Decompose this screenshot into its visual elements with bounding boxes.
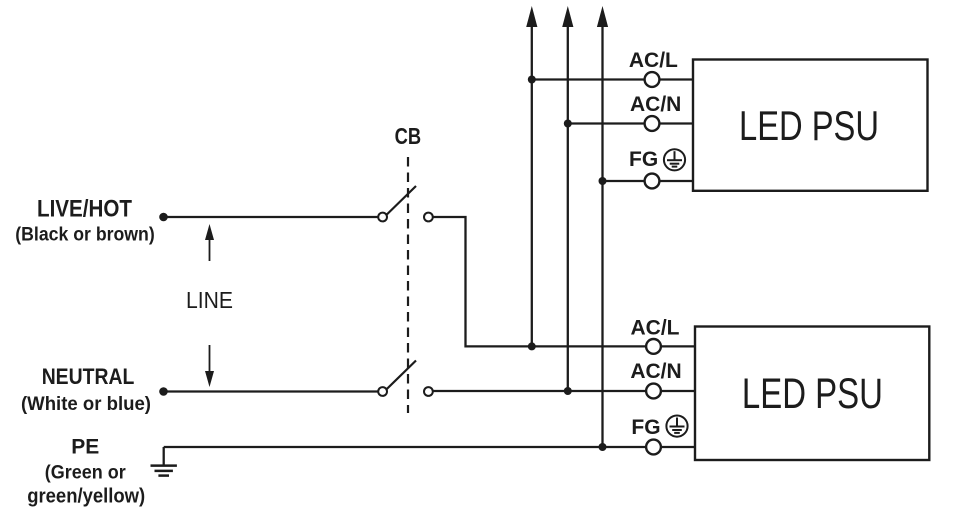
terminal FG top	[645, 174, 660, 189]
svg-text:AC/L: AC/L	[631, 317, 680, 340]
svg-text:NEUTRAL: NEUTRAL	[42, 364, 135, 389]
switch CB pole 2 (NEUTRAL)	[378, 361, 433, 396]
terminal AC/L top	[645, 72, 660, 87]
wire top AC/L to PSU	[659, 78, 693, 80]
arrow down (LINE to NEUTRAL)	[205, 345, 214, 387]
wire lower FG to PSU	[661, 446, 695, 448]
wire top AC/N to PSU	[659, 122, 693, 124]
terminal AC/N top	[645, 116, 660, 131]
arrow head output 1	[526, 6, 537, 27]
svg-text:LED PSU: LED PSU	[739, 102, 879, 149]
wire lower AC/N to PSU	[661, 390, 695, 392]
wire PE ground stub	[163, 447, 165, 466]
wire top FG	[603, 180, 645, 182]
node junction v3 PE	[599, 443, 607, 451]
wire output earth vertical	[601, 25, 603, 447]
svg-text:LED PSU: LED PSU	[742, 371, 883, 418]
svg-text:AC/L: AC/L	[629, 49, 678, 72]
circuit breaker dashed link	[407, 157, 409, 413]
node NEUTRAL input dot	[159, 387, 168, 396]
wire top AC/L	[532, 78, 645, 80]
node junction v1 lower AC/L	[528, 342, 536, 350]
protective earth symbol lower	[666, 416, 687, 437]
wire PE horizontal	[164, 446, 646, 448]
protective earth symbol top	[664, 149, 685, 170]
svg-text:green/yellow): green/yellow)	[27, 486, 145, 508]
wire NEUTRAL from breaker to lower AC/N	[433, 390, 646, 392]
arrow head output 3	[597, 6, 608, 27]
node junction v3 top FG	[599, 177, 607, 185]
svg-text:(Green or: (Green or	[45, 462, 126, 484]
wire LIVE from breaker down to lower AC/L	[433, 217, 646, 346]
node junction v1 top AC/L	[528, 76, 536, 84]
wire NEUTRAL horizontal	[164, 390, 379, 392]
switch CB pole 1 (LIVE)	[378, 186, 433, 221]
terminal AC/N lower	[646, 384, 661, 399]
svg-text:PE: PE	[71, 436, 99, 459]
terminal FG lower	[646, 440, 661, 455]
wire LIVE horizontal	[164, 216, 379, 218]
box LED PSU top	[693, 60, 928, 191]
box LED PSU lower	[695, 327, 929, 461]
svg-text:AC/N: AC/N	[630, 93, 681, 116]
svg-text:FG: FG	[631, 416, 660, 439]
wire lower AC/L to PSU	[661, 345, 695, 347]
svg-text:CB: CB	[395, 123, 422, 149]
ground symbol PE	[151, 466, 177, 476]
svg-text:AC/N: AC/N	[630, 360, 681, 383]
wire output phase 2 vertical	[567, 25, 569, 391]
node junction v2 top AC/N	[564, 120, 572, 128]
node LIVE input dot	[159, 213, 168, 222]
svg-text:(Black or brown): (Black or brown)	[15, 224, 155, 246]
svg-text:LINE: LINE	[186, 287, 233, 313]
terminal AC/L lower	[646, 339, 661, 354]
node junction v2 neutral	[564, 387, 572, 395]
arrow head output 2	[562, 6, 573, 27]
svg-text:FG: FG	[629, 148, 658, 171]
wire output phase 1 vertical	[531, 25, 533, 346]
arrow up (LINE to LIVE)	[205, 224, 214, 261]
svg-text:(White or blue): (White or blue)	[21, 393, 151, 415]
svg-text:LIVE/HOT: LIVE/HOT	[37, 196, 132, 223]
wire top AC/N	[568, 122, 645, 124]
wire top FG to PSU	[659, 180, 693, 182]
